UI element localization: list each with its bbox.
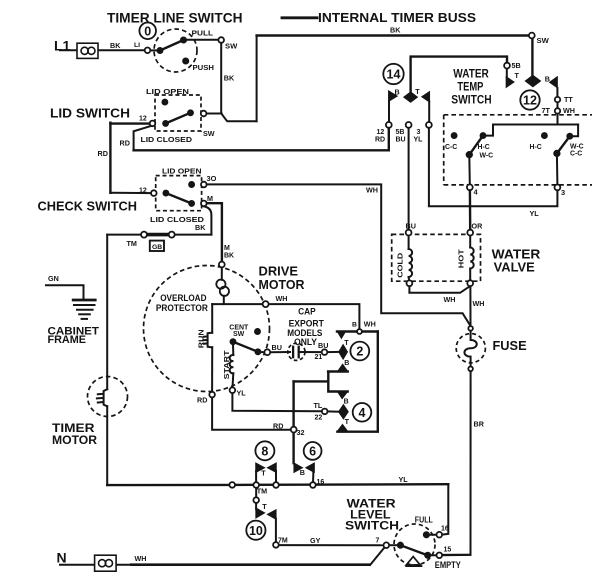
svg-text:5B: 5B xyxy=(512,61,521,70)
wire contact14 common riser xyxy=(411,57,507,93)
timer line switch arm to PULL xyxy=(160,40,184,51)
svg-text:WH: WH xyxy=(276,294,288,303)
label OVERLOAD PROTECTOR xyxy=(156,293,208,313)
svg-text:RD: RD xyxy=(98,149,108,158)
water level FULL contact dot xyxy=(423,532,429,538)
svg-text:10: 10 xyxy=(249,524,263,538)
water temp left pivot dot xyxy=(466,152,472,158)
cent sw pivot dot xyxy=(230,339,236,345)
connector TM circle right xyxy=(169,232,175,238)
svg-text:BK: BK xyxy=(110,41,121,50)
wire cap lead from BU xyxy=(270,351,290,353)
svg-text:B: B xyxy=(395,87,400,96)
svg-text:RD: RD xyxy=(197,396,207,405)
wire valve to fuse xyxy=(469,286,471,326)
svg-text:RD: RD xyxy=(120,139,130,148)
contact 6 flag right xyxy=(306,463,315,473)
timer dial circle 2 xyxy=(350,342,369,361)
svg-text:BU: BU xyxy=(396,137,406,144)
svg-text:YL: YL xyxy=(414,137,424,144)
cold valve coil lead xyxy=(408,235,410,249)
svg-text:FULL: FULL xyxy=(415,515,433,524)
svg-text:RUN: RUN xyxy=(197,329,206,348)
svg-text:BK: BK xyxy=(224,252,234,259)
svg-text:T: T xyxy=(345,417,350,426)
svg-text:CHECK SWITCH: CHECK SWITCH xyxy=(38,200,138,214)
svg-text:12: 12 xyxy=(377,129,385,136)
svg-text:BK: BK xyxy=(390,26,401,35)
svg-text:7T: 7T xyxy=(542,106,551,115)
fuse element xyxy=(464,331,476,367)
svg-text:LID OPEN: LID OPEN xyxy=(146,87,189,96)
terminal 15 water level xyxy=(437,553,443,559)
svg-text:TL: TL xyxy=(314,401,323,410)
svg-text:B: B xyxy=(344,360,349,367)
wire timer motor bus xyxy=(107,484,232,487)
svg-text:B: B xyxy=(344,399,349,406)
timer line switch U-TLS dashed body xyxy=(154,29,197,72)
svg-text:8: 8 xyxy=(261,444,268,458)
svg-text:BU: BU xyxy=(272,343,282,352)
svg-text:WH: WH xyxy=(473,299,485,308)
label CENT SW xyxy=(229,325,249,338)
svg-text:T: T xyxy=(415,87,420,96)
contact 8 flag right xyxy=(267,463,276,473)
svg-text:M: M xyxy=(207,194,213,203)
wire TM run to timer motor xyxy=(107,234,211,236)
svg-text:PROTECTOR: PROTECTOR xyxy=(156,303,208,313)
svg-text:TM: TM xyxy=(257,486,267,495)
svg-text:VALVE: VALVE xyxy=(494,259,536,274)
wire GY run xyxy=(279,544,385,546)
svg-text:START: START xyxy=(222,350,231,379)
capacitor C1 dashed body xyxy=(288,343,305,360)
wire contact2-4 left bracket xyxy=(327,372,348,392)
contact 14 diamond xyxy=(404,92,418,102)
wire contact12 common riser xyxy=(531,38,533,76)
node B WH xyxy=(357,329,362,334)
connector L1 plug xyxy=(77,43,98,58)
svg-text:TIMER LINE SWITCH: TIMER LINE SWITCH xyxy=(107,11,243,26)
wire timer motor drop xyxy=(106,235,108,390)
wire contact12 T leg to 5B xyxy=(506,68,508,77)
timer dial circle 8 xyxy=(255,441,274,460)
wire contact8 left leg xyxy=(255,471,257,484)
wire PULL to SW node xyxy=(185,39,219,41)
terminal SW lid switch xyxy=(201,111,207,117)
bus left junction xyxy=(229,482,235,488)
terminal 12 check switch xyxy=(151,190,157,196)
wire 3 YL drop xyxy=(429,128,558,207)
svg-text:5B: 5B xyxy=(396,129,405,136)
terminal 3O check switch xyxy=(201,182,207,188)
terminal YL motor xyxy=(230,387,236,393)
svg-text:T: T xyxy=(515,71,520,80)
svg-text:B: B xyxy=(300,468,305,477)
terminal fuse top xyxy=(468,326,473,331)
svg-text:4: 4 xyxy=(359,406,366,420)
contact 12 flag T xyxy=(506,77,514,88)
check switch arm xyxy=(166,193,192,203)
title TIMER MOTOR xyxy=(52,421,97,447)
connector TM plug bar xyxy=(146,233,170,237)
svg-text:GN: GN xyxy=(48,274,59,283)
svg-text:MOTOR: MOTOR xyxy=(52,433,97,447)
svg-text:T: T xyxy=(261,469,266,478)
water valve dashed box xyxy=(392,234,481,281)
svg-text:INTERNAL TIMER BUSS: INTERNAL TIMER BUSS xyxy=(318,10,476,25)
svg-text:RD: RD xyxy=(375,137,385,144)
svg-text:T: T xyxy=(344,338,349,347)
wire TT to 7T xyxy=(557,102,559,108)
svg-text:WH: WH xyxy=(366,185,378,194)
wire terminal7 to common xyxy=(389,544,400,546)
svg-text:16: 16 xyxy=(441,526,449,533)
overload protector heater loops xyxy=(216,280,229,296)
svg-text:PULL: PULL xyxy=(192,29,214,38)
terminal 7M xyxy=(273,542,279,548)
svg-text:LID OPEN: LID OPEN xyxy=(162,166,202,175)
svg-text:W-C: W-C xyxy=(480,153,494,160)
terminal M check switch xyxy=(201,201,207,207)
contact 8 right bus junction xyxy=(273,482,279,488)
empty to 15 stub xyxy=(428,554,437,556)
svg-text:CAP: CAP xyxy=(298,307,316,317)
wire start YL to contact4 22 xyxy=(232,393,322,411)
label CAP EXPORT MODELS ONLY xyxy=(287,307,324,348)
hot valve coil lead xyxy=(469,235,471,247)
contact 12 diamond xyxy=(525,75,540,87)
title WATER VALVE xyxy=(492,246,541,274)
wire contact10 right leg to 7M xyxy=(275,519,277,544)
svg-text:YL: YL xyxy=(399,475,409,484)
ground cabinet frame bars xyxy=(72,300,97,319)
cent sw arm xyxy=(233,342,258,352)
svg-text:WH: WH xyxy=(135,554,147,563)
connector N plug xyxy=(95,555,117,571)
wire RD to water temp 12 xyxy=(134,123,389,151)
wire BK drop from SW xyxy=(220,43,222,114)
timer line switch PULL contact dot xyxy=(180,37,186,43)
svg-text:22: 22 xyxy=(315,415,323,422)
fuse F1 dashed body xyxy=(456,334,485,363)
svg-text:TM: TM xyxy=(127,239,137,248)
contact 2 flag T xyxy=(337,332,345,339)
svg-text:BK: BK xyxy=(224,74,235,83)
check switch dashed box xyxy=(156,176,202,211)
terminal BU cold valve xyxy=(406,230,412,236)
title WATER TEMP SWITCH xyxy=(451,67,491,107)
contact 10 flag right xyxy=(267,510,276,520)
svg-text:14: 14 xyxy=(387,68,401,82)
terminal 5B xyxy=(504,63,510,69)
svg-text:FUSE: FUSE xyxy=(493,338,527,353)
svg-text:L1: L1 xyxy=(54,38,71,54)
terminal 5B BU xyxy=(406,122,412,128)
svg-text:WATER: WATER xyxy=(453,67,489,81)
svg-text:WH: WH xyxy=(364,320,376,329)
wire cap to 21 xyxy=(299,351,322,353)
svg-text:32: 32 xyxy=(297,428,305,437)
water temp left idle contact dot C-C xyxy=(451,133,457,139)
capacitor plates xyxy=(293,346,299,359)
svg-text:MOTOR: MOTOR xyxy=(259,278,305,292)
terminal cold valve bottom xyxy=(407,280,413,286)
timer dial circle 12 xyxy=(520,90,539,109)
svg-text:GB: GB xyxy=(152,244,162,251)
water temp right idle contact dot H-C xyxy=(541,133,547,139)
start winding coil xyxy=(230,355,234,373)
wire cent sw to BU terminal xyxy=(259,351,266,353)
svg-text:LID CLOSED: LID CLOSED xyxy=(141,135,193,144)
node 32 xyxy=(291,427,297,433)
svg-text:WH: WH xyxy=(563,106,575,115)
contact 2 diamond xyxy=(339,345,348,360)
wire contact14 T leg xyxy=(428,102,430,123)
wire check sw 3O WH run xyxy=(207,184,471,325)
svg-text:HOT: HOT xyxy=(457,249,466,269)
wire contact2 right bracket xyxy=(337,332,377,432)
check switch common dot xyxy=(163,190,169,196)
cent sw arm tip dot xyxy=(255,349,261,355)
wire internal timer buss BK top xyxy=(257,34,530,36)
water temp right pivot dot xyxy=(554,150,560,156)
node TM bus xyxy=(253,482,259,488)
wire lid switch SW tie xyxy=(206,113,221,115)
terminal SW internal buss xyxy=(529,33,535,39)
svg-text:12: 12 xyxy=(139,187,147,194)
svg-text:C-C: C-C xyxy=(445,144,457,151)
wire motor BK lead xyxy=(221,265,223,280)
water level EMPTY arm dot xyxy=(425,552,431,558)
water temp left arm xyxy=(469,136,483,155)
svg-text:OR: OR xyxy=(472,221,484,230)
run winding upper lead xyxy=(211,304,213,333)
svg-text:M: M xyxy=(224,245,230,252)
wire N WH run xyxy=(60,564,134,566)
wire TM branch to contact10 xyxy=(255,487,257,509)
wire node B WH spans xyxy=(337,330,378,332)
wire L1 feed BK xyxy=(60,49,146,51)
wire loops to junction xyxy=(223,296,225,304)
svg-text:SW: SW xyxy=(233,331,245,338)
terminal LI xyxy=(145,48,151,54)
svg-text:YL: YL xyxy=(237,389,247,398)
svg-text:W-C: W-C xyxy=(570,143,584,150)
contact 10 flag left xyxy=(256,508,265,518)
terminal SW timer line switch xyxy=(218,37,224,43)
wire contact12 right leg xyxy=(556,88,558,97)
terminal TT xyxy=(555,97,560,102)
wire M BK curve to TM line xyxy=(204,206,212,234)
timer line switch common dot xyxy=(157,48,163,54)
wire 21 to contact2 diamond xyxy=(327,351,339,353)
lid switch common dot xyxy=(163,120,169,126)
legend line internal timer buss xyxy=(282,16,317,19)
timer dial circle 6 xyxy=(304,442,322,460)
svg-text:EXPORT: EXPORT xyxy=(289,318,325,328)
wire contact14 B leg xyxy=(388,101,390,122)
svg-text:2: 2 xyxy=(356,345,363,359)
wire fuse BR drop xyxy=(442,371,470,555)
svg-text:LI: LI xyxy=(134,42,140,49)
water level bellows triangle xyxy=(405,557,422,567)
svg-text:B: B xyxy=(545,74,550,83)
terminal OR hot valve xyxy=(467,230,473,236)
wire 5B BU drop to valve xyxy=(408,128,410,231)
terminal 16 water level xyxy=(437,532,443,538)
water level common dot xyxy=(397,542,403,548)
svg-text:12: 12 xyxy=(523,94,537,108)
timer motor U-TM coil xyxy=(97,389,107,406)
contact 10 upper junction xyxy=(253,497,259,503)
wire 22 to contact4 diamond xyxy=(328,410,340,412)
terminal BU motor xyxy=(264,349,270,355)
cold valve coil L-COLD xyxy=(409,249,413,277)
contact 6 flag left xyxy=(294,463,303,473)
contact 2 flag B xyxy=(338,364,348,371)
svg-text:H-C: H-C xyxy=(530,144,542,151)
wire GN cabinet frame lead xyxy=(46,285,84,299)
terminal 22 xyxy=(322,409,328,415)
timer motor dashed body xyxy=(88,377,128,417)
svg-text:3: 3 xyxy=(417,129,421,136)
wire BK riser xyxy=(256,36,258,122)
terminal I6 bus xyxy=(310,482,316,488)
timer dial circle 14 xyxy=(383,64,403,84)
terminal WH motor xyxy=(263,301,269,307)
contact 8 flag left xyxy=(256,463,265,473)
terminal 12 lid switch xyxy=(150,121,156,127)
svg-text:SWITCH: SWITCH xyxy=(451,93,491,107)
cent sw stationary dot xyxy=(255,329,261,335)
svg-text:OVERLOAD: OVERLOAD xyxy=(160,293,207,303)
wire YL to full 16 xyxy=(442,484,448,534)
start winding lower lead xyxy=(232,373,235,387)
wire BK jog xyxy=(221,113,256,121)
connector TM circle left xyxy=(141,232,147,238)
wire empty 15 to BR corner xyxy=(442,554,471,556)
wire contacts bus YL xyxy=(232,483,448,486)
terminal 4 water temp xyxy=(467,184,473,190)
svg-text:N: N xyxy=(57,550,67,566)
svg-text:C-C: C-C xyxy=(570,150,582,157)
svg-text:21: 21 xyxy=(315,354,323,361)
wire LI to common xyxy=(150,49,158,51)
svg-text:WH: WH xyxy=(444,295,456,304)
wire 7T distribution xyxy=(486,114,578,137)
wire terminal4 OR to hot valve xyxy=(469,190,472,230)
svg-text:BU: BU xyxy=(318,341,328,350)
terminal 12 RD xyxy=(386,122,392,128)
svg-text:ONLY: ONLY xyxy=(294,337,317,347)
terminal fuse bottom xyxy=(468,367,473,372)
wire motor RD to node 32 xyxy=(212,397,291,429)
wire contact6 right leg xyxy=(312,471,314,484)
wire left arm to terminal 4 xyxy=(468,155,471,185)
svg-text:6: 6 xyxy=(309,445,316,459)
svg-text:DRIVE: DRIVE xyxy=(259,265,299,279)
svg-text:RD: RD xyxy=(273,421,283,430)
svg-text:SWITCH: SWITCH xyxy=(345,519,399,533)
hot valve lower lead xyxy=(469,269,471,281)
svg-text:4: 4 xyxy=(474,187,479,196)
hot valve coil L-HOT xyxy=(470,248,474,269)
title DRIVE MOTOR xyxy=(259,265,305,293)
svg-text:YL: YL xyxy=(530,209,540,218)
contact 14 flag T xyxy=(422,92,430,103)
timer dial circle 4 xyxy=(353,403,372,422)
contact 14 flag B xyxy=(389,91,398,102)
run winding lower lead xyxy=(211,347,213,392)
svg-text:16: 16 xyxy=(317,479,325,486)
wire valve WH commons xyxy=(409,286,470,293)
wire RD into check sw 12 xyxy=(110,192,151,194)
svg-text:EMPTY: EMPTY xyxy=(435,560,461,570)
timer dial circle 10 xyxy=(246,521,265,540)
water level switch arm xyxy=(400,545,427,555)
water temp left arm top dot xyxy=(480,133,486,139)
wire motor WH to node B xyxy=(268,304,359,329)
terminal 21 xyxy=(322,349,328,355)
timer line switch PUSH contact dot xyxy=(183,58,189,64)
drive motor dashed body xyxy=(144,266,270,392)
contact 4 flag T xyxy=(337,424,348,431)
wire node32 riser xyxy=(292,381,294,463)
timer dial circle 0 xyxy=(139,23,156,40)
svg-text:B: B xyxy=(352,322,357,329)
svg-text:BK: BK xyxy=(195,223,206,232)
svg-text:7M: 7M xyxy=(278,538,288,545)
wire motor top junction row xyxy=(212,303,263,305)
start winding upper lead xyxy=(232,344,234,356)
wire check sw M tie xyxy=(207,203,222,262)
svg-text:3: 3 xyxy=(561,188,565,197)
wire contact8 right leg xyxy=(275,471,277,483)
terminal 3 water temp xyxy=(555,185,561,191)
water temp switch dashed box xyxy=(444,115,592,185)
water temp right arm xyxy=(557,136,570,153)
water temp right arm top dot xyxy=(567,133,573,139)
contact 4 flag B xyxy=(338,392,348,399)
svg-text:SW: SW xyxy=(225,42,238,51)
svg-text:BR: BR xyxy=(474,419,485,428)
lid switch arm contact dot xyxy=(188,110,194,116)
svg-text:H-C: H-C xyxy=(478,144,490,151)
connector GB box xyxy=(150,241,164,251)
full to 16 stub xyxy=(426,534,436,536)
wire timer motor drop lower xyxy=(106,406,108,485)
svg-text:T: T xyxy=(262,502,267,511)
svg-text:0: 0 xyxy=(144,24,151,38)
svg-text:GY: GY xyxy=(310,536,321,545)
title CABINET FRAME xyxy=(48,326,100,347)
svg-text:COLD: COLD xyxy=(396,252,405,278)
contact 4 diamond xyxy=(339,405,349,419)
wire lid sw 12 to RD left xyxy=(110,122,150,124)
terminal 7 water level xyxy=(384,542,390,548)
svg-text:BU: BU xyxy=(406,222,416,231)
terminal RD motor xyxy=(209,392,215,398)
lid switch arm xyxy=(166,113,191,124)
contact 12 flag right xyxy=(550,77,558,88)
terminal M BK motor xyxy=(219,262,225,268)
terminal 7T xyxy=(555,108,560,113)
terminal 3 YL xyxy=(426,122,432,128)
svg-text:15: 15 xyxy=(444,547,452,554)
check switch 3O contact dot xyxy=(189,182,195,188)
svg-text:TEMP: TEMP xyxy=(457,80,483,94)
